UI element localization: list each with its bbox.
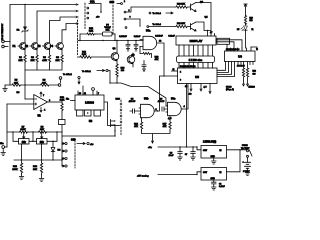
capacitor C2 xyxy=(134,36,141,51)
wire U6 hook xyxy=(251,47,257,51)
svg-text:R20: R20 xyxy=(250,17,253,19)
node pot ladder dots xyxy=(32,141,53,142)
resistor R6 xyxy=(25,80,58,87)
wire U5 bottom pin b xyxy=(190,84,192,92)
switch S1D pole arrows xyxy=(62,142,67,167)
svg-text:8 X 100 ohm: 8 X 100 ohm xyxy=(189,60,202,62)
svg-text:R21 10K: R21 10K xyxy=(177,23,185,25)
wire S1A pole to +5v stub xyxy=(89,4,101,12)
transistor Q4 xyxy=(191,16,209,31)
wire U5 left stub xyxy=(172,70,178,72)
wire U5 bottom pin 14 xyxy=(186,84,188,148)
wire left vertical bus xyxy=(9,5,11,86)
node rail1 dots xyxy=(179,146,193,147)
terminal circle left B xyxy=(2,45,5,48)
potentiometer P1a box xyxy=(19,132,30,144)
svg-text:1.2K: 1.2K xyxy=(60,100,65,102)
node route dots xyxy=(109,82,117,83)
svg-text:820: 820 xyxy=(253,73,256,75)
wire U8 out xyxy=(197,172,201,175)
svg-text:2: 2 xyxy=(180,72,181,74)
svg-text:To DC-4: To DC-4 xyxy=(153,12,162,15)
svg-text:R22: R22 xyxy=(253,71,256,73)
resistor R2 xyxy=(30,50,38,64)
resistor R17 xyxy=(163,116,172,131)
svg-text:C5-C8: C5-C8 xyxy=(226,86,231,88)
capacitor C6 xyxy=(158,98,168,111)
svg-text:5.6K: 5.6K xyxy=(89,31,94,33)
wire IR to U6 xyxy=(245,30,247,48)
node output junction xyxy=(61,101,62,102)
wire pot wiper drops xyxy=(22,144,42,163)
svg-text:To 10k-2: To 10k-2 xyxy=(63,74,72,76)
node bottom rail dots xyxy=(21,159,63,160)
svg-text:0.22uF: 0.22uF xyxy=(168,35,175,37)
wire bracket row2 xyxy=(37,11,78,42)
node U8 in dot xyxy=(239,149,240,150)
ground battery xyxy=(245,173,249,176)
node U7 out dot xyxy=(196,146,197,147)
svg-text:7: 7 xyxy=(98,93,99,95)
display module box xyxy=(176,36,216,45)
svg-text:GND: GND xyxy=(211,156,216,158)
wire chain2 from S1B xyxy=(126,19,176,27)
resistor R1 xyxy=(18,50,26,64)
capacitor C8 xyxy=(212,180,226,188)
terminal To DC-4 lower xyxy=(147,23,162,27)
svg-text:U4c: U4c xyxy=(171,97,176,100)
terminal To DC-4 upper xyxy=(149,12,173,15)
svg-text:3: 3 xyxy=(130,17,131,19)
svg-text:LM78L05(2): LM78L05(2) xyxy=(203,141,216,144)
wire main osc rail xyxy=(78,40,143,42)
wire U6 bottom ticks xyxy=(238,62,253,65)
wire U7 out xyxy=(197,147,201,150)
ground R12 xyxy=(39,175,43,182)
node To 10k-1 label xyxy=(82,69,108,73)
ground at R5 xyxy=(3,85,7,92)
resistor R19 xyxy=(176,4,191,9)
node U4b out dot xyxy=(157,110,158,111)
svg-text:U5: U5 xyxy=(195,75,199,79)
svg-text:+5V analog: +5V analog xyxy=(137,175,149,177)
node +5v gate rail xyxy=(152,141,154,143)
svg-text:4 7: 4 7 xyxy=(210,31,212,34)
node U8 out dot xyxy=(196,174,197,175)
wire osc top row xyxy=(80,33,103,35)
svg-text:0.047uF: 0.047uF xyxy=(155,34,163,37)
svg-text:10K: 10K xyxy=(42,82,46,84)
svg-text:U6: U6 xyxy=(238,55,242,59)
wire left input vertical xyxy=(6,104,8,147)
wire U5 bottom pin d xyxy=(209,84,211,94)
wire U5 to U6 link1 xyxy=(217,62,226,71)
potentiometer P2a box xyxy=(37,132,48,144)
wire diode feed xyxy=(24,5,26,27)
switch U3 sub box b xyxy=(85,110,92,116)
svg-text:11: 11 xyxy=(84,93,86,95)
wire S1B top stub xyxy=(117,3,120,5)
wire pot ladder xyxy=(13,132,57,141)
wire bracket row4 xyxy=(62,24,78,43)
svg-text:11: 11 xyxy=(173,69,175,71)
svg-text:10K: 10K xyxy=(33,169,37,171)
wire U5 to U6 link4 xyxy=(217,62,235,77)
wire pot top rail xyxy=(7,131,62,133)
wire U4c output xyxy=(181,84,188,110)
regulator U8 box xyxy=(201,168,227,181)
ground U7 xyxy=(212,158,217,164)
regulator U7 box xyxy=(201,146,227,159)
wire display data bus a xyxy=(216,40,242,48)
resistor R5 xyxy=(5,80,25,87)
wire Q1 emitter xyxy=(116,61,118,64)
capacitor C4 xyxy=(129,97,141,113)
IC U3 box xyxy=(75,95,104,110)
svg-text:TO 10 TURN POT: TO 10 TURN POT xyxy=(2,23,4,40)
wire S1C feed xyxy=(62,125,115,136)
IC U6 box xyxy=(225,51,256,62)
wire 10k-1 riser xyxy=(108,71,110,84)
transistor P4 xyxy=(50,43,63,50)
terminal S1D out xyxy=(87,142,89,144)
node display feed junction xyxy=(207,30,208,31)
svg-text:13: 13 xyxy=(79,93,81,95)
ground U8 xyxy=(212,187,217,190)
svg-text:14: 14 xyxy=(185,85,187,88)
resistor R8 xyxy=(39,126,47,133)
wire top rail xyxy=(10,4,78,6)
node pot rail dots xyxy=(12,131,62,132)
resistor R11 xyxy=(12,163,22,174)
terminal circle left A xyxy=(2,40,5,43)
svg-text:22K: 22K xyxy=(18,60,22,62)
power +5v IR chain xyxy=(244,4,247,16)
wire chain1 to Q2 xyxy=(126,7,176,12)
svg-text:10K: 10K xyxy=(14,82,18,84)
wire bottom rail xyxy=(14,159,62,161)
svg-text:22K: 22K xyxy=(55,60,59,62)
svg-text:1N5223: 1N5223 xyxy=(249,86,255,88)
node To 10k-2 label xyxy=(63,74,80,84)
resistor R21 xyxy=(176,23,191,27)
svg-text:PUSH: PUSH xyxy=(242,145,248,147)
svg-text:(Disp. A): (Disp. A) xyxy=(226,88,234,91)
terminal circle +5v ref xyxy=(59,77,62,80)
diode D1 zener xyxy=(17,27,29,44)
wire +5v rail1 xyxy=(158,146,197,148)
resistor R3 xyxy=(42,50,51,64)
capacitor C3 xyxy=(142,61,146,72)
component xtal box xyxy=(217,38,230,44)
svg-text:TO TEST: TO TEST xyxy=(241,148,250,150)
diode D5 IR xyxy=(237,24,254,31)
wire display data bus b xyxy=(216,42,234,48)
svg-text:470 PF: 470 PF xyxy=(129,100,136,103)
svg-text:10k: 10k xyxy=(22,141,27,144)
op-amp U2 xyxy=(17,92,52,118)
wire Q4 collector xyxy=(196,22,211,31)
node dot at R5 junction xyxy=(24,84,25,85)
resistor R12 xyxy=(33,163,43,175)
svg-text:4.7K: 4.7K xyxy=(42,59,47,62)
resistor R18 xyxy=(140,47,159,62)
gate U4b xyxy=(139,97,158,117)
wire summing node vertical xyxy=(24,70,26,99)
transistor P1 xyxy=(13,43,27,50)
transistor P2 xyxy=(25,43,38,50)
transistor P3 xyxy=(38,43,51,50)
node U4a out tie xyxy=(163,75,164,76)
wire gate pulldown rail xyxy=(142,131,171,143)
svg-text:1: 1 xyxy=(124,1,125,3)
resistor R23 xyxy=(246,62,255,85)
switch S1B wafer dashed xyxy=(112,5,114,35)
switch U3 sub box a xyxy=(77,110,84,116)
wire Q2 collector xyxy=(196,3,211,31)
resistor network box xyxy=(177,56,215,63)
switch S1A wafer dashed xyxy=(84,3,86,30)
svg-text:10K: 10K xyxy=(40,129,44,131)
wire terminal A xyxy=(4,41,10,43)
wire osc rail verticals xyxy=(80,34,115,41)
wire U3 right pin xyxy=(104,102,120,126)
ground R11 xyxy=(19,174,23,180)
switch S1C contact bracket xyxy=(111,120,116,137)
svg-text:47K: 47K xyxy=(134,125,138,128)
wire osc to gate corner xyxy=(142,40,144,41)
wire op-amp output xyxy=(48,101,63,103)
svg-text:10K: 10K xyxy=(30,60,34,62)
svg-text:C7: C7 xyxy=(185,154,187,156)
capacitor C6e electrolytic xyxy=(169,147,183,160)
gate U4c xyxy=(166,97,186,119)
gate U4a xyxy=(140,29,162,49)
svg-text:U4b: U4b xyxy=(144,97,149,100)
component cal box xyxy=(59,120,66,125)
svg-text:C8: C8 xyxy=(219,183,221,185)
resistor R22 xyxy=(242,62,244,85)
svg-text:6: 6 xyxy=(180,80,181,82)
wire U3 left pin xyxy=(71,100,76,102)
wire display aux ticks xyxy=(211,34,215,37)
wire S1D selected contact xyxy=(77,143,85,145)
terminal Ein xyxy=(0,143,7,148)
diode D2 xyxy=(51,141,61,160)
node junction top xyxy=(24,4,25,5)
svg-text:GND: GND xyxy=(211,178,216,180)
svg-text:47K: 47K xyxy=(163,125,167,128)
wire Q1 base row xyxy=(78,56,81,58)
resistor R11b 5.6K xyxy=(87,28,95,35)
resistor R10 xyxy=(60,97,65,112)
transistor Q2 xyxy=(191,1,204,11)
IC U5 box xyxy=(178,68,218,84)
wire terminal B xyxy=(4,46,8,48)
svg-text:0.22uF: 0.22uF xyxy=(134,36,141,38)
svg-text:To DC-4: To DC-4 xyxy=(153,23,162,26)
capacitor C1 xyxy=(119,35,130,51)
wire bus arrowheads xyxy=(76,4,78,25)
switch S1C x contacts xyxy=(120,103,122,122)
switch S1A contacts xyxy=(87,7,89,19)
wire op-amp plus input xyxy=(25,98,34,100)
svg-text:0.047uF: 0.047uF xyxy=(119,35,127,38)
svg-text:+5v: +5v xyxy=(189,93,192,95)
wire U3 top pins xyxy=(78,86,97,95)
ground Ein xyxy=(1,148,5,155)
svg-text:DISPLAY: DISPLAY xyxy=(190,39,203,43)
svg-text:10uF: 10uF xyxy=(169,155,174,157)
wire S1D pole column xyxy=(61,136,63,166)
wire op-amp minus input xyxy=(7,103,34,105)
resistor R14 xyxy=(134,118,143,131)
svg-text:To 10k-1: To 10k-1 xyxy=(82,71,91,73)
wire cal box down xyxy=(61,125,63,137)
svg-text:D5: D5 xyxy=(237,29,239,31)
switch S1D wafer dashed xyxy=(74,141,76,169)
resistor R7 xyxy=(20,126,28,133)
wire display pins to resnet xyxy=(179,45,213,56)
wire U4a output xyxy=(157,43,164,76)
wire U8 in riser xyxy=(227,150,241,172)
svg-text:R19 10K: R19 10K xyxy=(177,4,185,6)
node osc rail dots xyxy=(79,40,136,41)
svg-text:100K: 100K xyxy=(20,129,26,131)
svg-text:4, 5: 4, 5 xyxy=(204,85,207,88)
battery 9 volt xyxy=(243,157,251,173)
switch U3 sub box c xyxy=(94,110,101,116)
resistor R4 xyxy=(55,50,63,64)
wire R16 bottom tie xyxy=(116,78,118,83)
wire U5 to U6 link2 xyxy=(217,62,229,73)
wire +5v analog rail2 xyxy=(158,174,197,176)
wire resnet pins to U5 xyxy=(179,63,213,69)
wire U5 bottom pin c xyxy=(200,84,202,92)
svg-text:S1B: S1B xyxy=(110,1,115,4)
svg-text:10k: 10k xyxy=(40,141,45,144)
transistor Q1 xyxy=(111,41,119,61)
capacitor C7 xyxy=(191,147,195,160)
wire U7 in xyxy=(227,149,247,151)
svg-text:100K: 100K xyxy=(12,169,18,171)
switch wafer dashed lower left xyxy=(77,20,79,55)
wire emitter rail xyxy=(25,63,62,70)
svg-text:LM3914: LM3914 xyxy=(85,102,94,105)
wire route to gates diagonal xyxy=(110,83,168,106)
wire display feed xyxy=(207,31,209,37)
resistor R13 xyxy=(80,52,111,59)
resistor R20 xyxy=(244,16,252,25)
wire U5 to U6 link3 xyxy=(217,62,232,75)
wire U4b output xyxy=(154,76,177,111)
svg-text:'CDR4': 'CDR4' xyxy=(104,26,111,29)
svg-text:0.47uF: 0.47uF xyxy=(219,185,226,188)
switch S1B contacts xyxy=(121,1,131,29)
svg-text:470 PF: 470 PF xyxy=(158,100,165,103)
svg-text:510: 510 xyxy=(250,20,253,22)
wire bracket row3 xyxy=(50,17,79,42)
wire U6 top pins xyxy=(227,45,251,52)
node R22 arrows xyxy=(243,84,249,86)
svg-text:47K: 47K xyxy=(155,58,159,61)
terminal circle R6 out xyxy=(58,84,61,87)
potentiometer P5 CDR4 box xyxy=(103,24,116,36)
resistor R16 xyxy=(116,64,125,78)
node U3 pin loop xyxy=(92,88,95,91)
svg-text:U4a: U4a xyxy=(146,29,151,32)
switch S1C wafer dashed xyxy=(120,100,122,136)
wire R10 to cal box xyxy=(61,112,63,120)
svg-text:D1C: D1C xyxy=(116,98,121,100)
node U6 hook dot xyxy=(256,48,258,50)
svg-text:10K: 10K xyxy=(106,30,110,32)
switch push test xyxy=(247,150,253,158)
node +5v arrow S1A xyxy=(100,12,102,14)
transistor Q3 xyxy=(127,53,135,67)
wire +5v ref stub xyxy=(60,79,62,82)
